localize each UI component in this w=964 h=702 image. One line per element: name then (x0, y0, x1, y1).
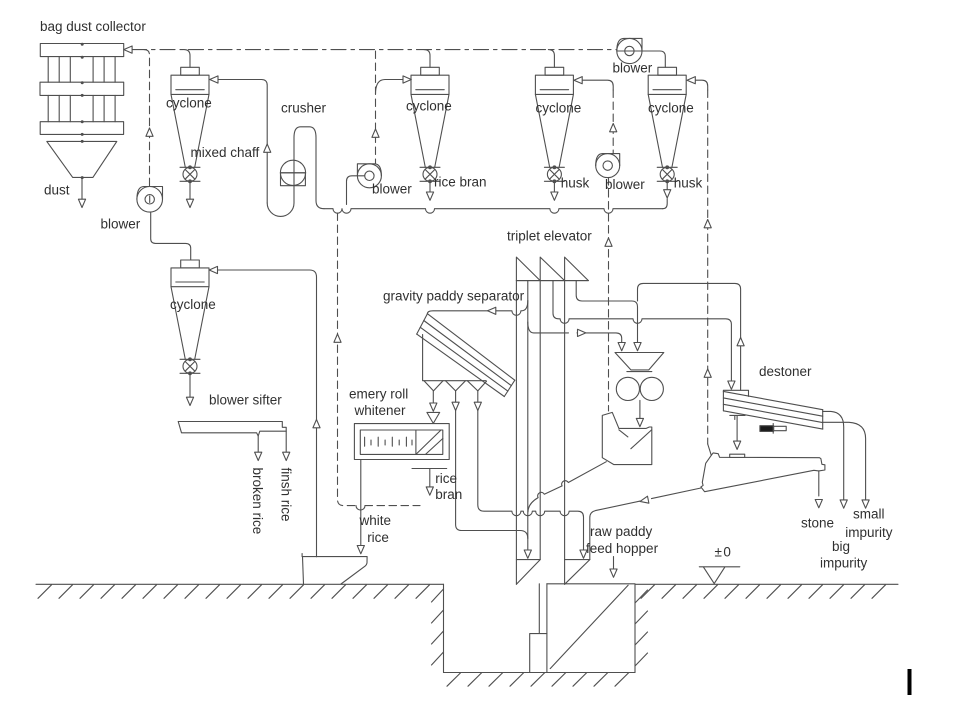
wire blower B4 outlet to C4 (617, 51, 665, 67)
pit left wall hatching (432, 589, 444, 665)
gravity paddy separator body (423, 335, 487, 391)
svg-text:dust: dust (44, 182, 70, 197)
gravity paddy separator deck (417, 314, 515, 397)
wire huller box to boot1 (528, 462, 606, 512)
separator outlet to boot line (V2) (452, 391, 528, 539)
svg-text:triplet elevator: triplet elevator (507, 228, 592, 243)
blower B1 below bag filter (137, 187, 163, 213)
blower sifter tray (178, 422, 286, 437)
svg-text:±0: ±0 (715, 545, 733, 560)
cyclone C3 discharge valve (544, 166, 564, 183)
cyclone C5 (171, 260, 209, 359)
blower B4 top (617, 38, 642, 63)
wire C1 stem to duct (184, 50, 190, 68)
blower B3 husk line (596, 154, 620, 178)
svg-text:white: white (359, 513, 392, 528)
datum bar (908, 669, 912, 695)
svg-text:feed hopper: feed hopper (586, 541, 659, 556)
svg-text:blower sifter: blower sifter (209, 393, 282, 408)
crusher (280, 160, 305, 186)
svg-text:stone: stone (801, 515, 834, 530)
svg-text:rice bran: rice bran (434, 174, 487, 189)
wire C4 husk drop (664, 181, 671, 198)
wire C4 inlet from paddy cleaner (dashed riser) (687, 77, 711, 444)
hopper feed arrow (610, 557, 617, 578)
ground line right (635, 583, 898, 585)
svg-text:rice: rice (435, 471, 457, 486)
elevator return to boot1 (524, 281, 531, 559)
cleaner stone outlet arrow (815, 471, 822, 508)
cyclone C3 (535, 67, 573, 167)
cyclone C1 discharge valve (180, 166, 200, 183)
svg-text:blower: blower (101, 217, 141, 232)
destoner deck (723, 390, 822, 429)
wire C1 inlet from crusher (210, 76, 271, 203)
ground line left (36, 583, 444, 585)
svg-text:blower: blower (613, 61, 653, 76)
elevator leg 3 (564, 281, 566, 585)
wire C2 stem to duct (424, 50, 430, 68)
cyclone C4 discharge valve (657, 166, 677, 183)
svg-text:cyclone: cyclone (166, 96, 212, 111)
wire duct to blower B1 (dashed) (144, 50, 153, 187)
bag dust collector (40, 43, 124, 179)
wire crusher U-turn (267, 138, 294, 217)
cyclone C4 (648, 67, 686, 167)
svg-text:husk: husk (561, 176, 590, 191)
wire C1 mixed chaff drop (186, 181, 193, 207)
wire C3 inlet from blower B3 (574, 77, 617, 154)
separator outlet to boot2 line (V3) (474, 391, 587, 558)
svg-text:blower: blower (372, 182, 412, 197)
svg-text:big: big (832, 539, 850, 554)
svg-text:small: small (853, 507, 885, 522)
whitener white rice outlet (357, 460, 364, 554)
elevator boot 2 (565, 560, 590, 585)
white rice ground outlet (302, 554, 367, 585)
svg-text:impurity: impurity (820, 555, 868, 570)
pit left wall (443, 584, 445, 672)
destoner outlet bar (730, 415, 745, 419)
huller discharge arrow (636, 400, 643, 426)
paddy huller rubber rolls (616, 377, 663, 400)
raw paddy feed hopper (530, 584, 635, 673)
wire destoner return to funnel (638, 283, 745, 390)
wire whitener aspiration (dashed) (334, 213, 420, 510)
wire elevator to destoner (553, 281, 735, 390)
wire elevator to huller funnel right (576, 281, 641, 351)
svg-text:crusher: crusher (281, 101, 327, 116)
wire main discharge line (324, 199, 667, 213)
wire blower B2 to C2 (dashed riser) (372, 51, 379, 164)
svg-text:destoner: destoner (759, 364, 812, 379)
sifter finsh rice arrow (283, 431, 290, 460)
svg-text:cyclone: cyclone (170, 297, 216, 312)
wire crusher arch (294, 127, 324, 209)
wire C5 drop to sifter (186, 373, 193, 405)
elevator boot 1 (516, 560, 540, 585)
wire dashed to paddy cleaner inlet (708, 444, 712, 455)
benchmark level symbol (699, 567, 740, 584)
emery roll whitener (354, 424, 449, 460)
pit right wall (634, 584, 636, 672)
wire C2 rice bran drop (426, 181, 433, 200)
wire C5 inlet riser from white rice outlet (209, 266, 320, 556)
svg-text:gravity paddy separator: gravity paddy separator (383, 289, 525, 304)
elevator leg 1 (515, 281, 517, 585)
blower B2 near crusher (357, 164, 381, 188)
wire blower B2 suction (347, 176, 365, 205)
elevator leg 2 (539, 281, 541, 560)
wire C3 stem to duct (548, 50, 554, 68)
separator feed line with left arrow (427, 301, 527, 316)
ground hatching right (641, 585, 886, 599)
svg-text:raw paddy: raw paddy (590, 524, 653, 539)
whitener rice bran outlet (412, 469, 447, 496)
svg-text:bran: bran (435, 487, 462, 502)
ground hatching left (38, 585, 430, 599)
wire blower B3 aspiration from huller (dashed) (605, 178, 612, 411)
svg-text:rice: rice (367, 530, 389, 545)
destoner vibrator symbol (760, 424, 786, 434)
pit floor hatching (447, 673, 629, 686)
cyclone C1 (171, 67, 209, 167)
wire C3 husk drop (551, 181, 558, 200)
paddy huller funnel (615, 353, 664, 372)
huller separator box (602, 412, 652, 464)
wire destoner big impurity outlet (823, 411, 848, 508)
svg-text:impurity: impurity (845, 525, 893, 540)
svg-text:blower: blower (605, 177, 645, 192)
svg-text:finsh rice: finsh rice (279, 468, 294, 522)
pit floor (444, 672, 636, 674)
svg-text:whitener: whitener (354, 403, 407, 418)
svg-text:emery roll: emery roll (349, 386, 408, 401)
wire blower B1 outlet to C5 (151, 212, 191, 260)
destoner drop to cleaner (734, 415, 741, 449)
wire destoner small impurity outlet (823, 422, 870, 508)
svg-text:husk: husk (674, 176, 703, 191)
main suction duct dash-dot line (132, 49, 617, 51)
arrow into bag dust collector (124, 46, 132, 53)
wire raw paddy from cleaner to pit (590, 488, 701, 560)
svg-text:bag dust collector: bag dust collector (40, 19, 146, 34)
dust outlet arrow (78, 178, 85, 208)
wire C2 inlet (376, 76, 412, 94)
svg-text:cyclone: cyclone (406, 99, 452, 114)
svg-text:broken rice: broken rice (250, 468, 265, 535)
cyclone C2 (411, 67, 449, 167)
svg-text:mixed chaff: mixed chaff (191, 145, 260, 160)
paddy cleaner screen (701, 453, 825, 492)
svg-text:cyclone: cyclone (648, 100, 694, 115)
wire elevator to huller funnel left (528, 322, 626, 351)
cyclone C5 discharge valve (180, 358, 200, 375)
svg-text:cyclone: cyclone (536, 100, 582, 115)
cyclone C2 discharge valve (420, 166, 440, 183)
whitener inlet funnel (427, 391, 440, 423)
sifter broken rice arrow (255, 436, 262, 461)
triplet elevator head (516, 257, 588, 281)
pit right wall hatching (635, 590, 648, 666)
